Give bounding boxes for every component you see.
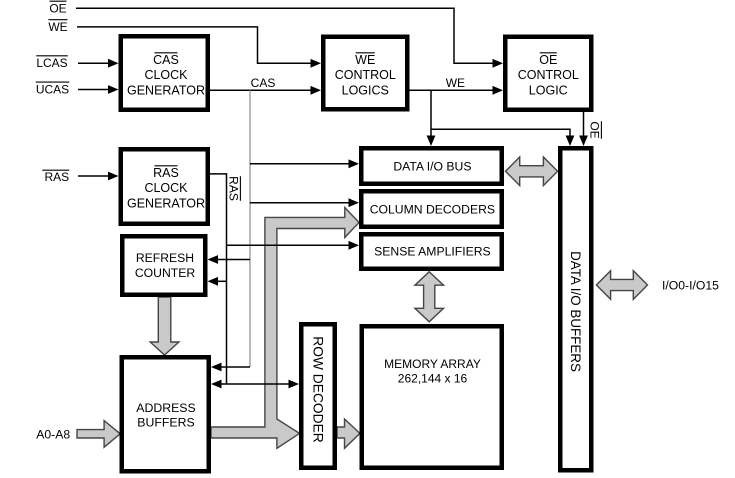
svg-text:RAS: RAS	[153, 166, 179, 180]
svg-text:RAS: RAS	[227, 176, 241, 201]
svg-text:MEMORY ARRAY: MEMORY ARRAY	[384, 357, 481, 371]
svg-text:LOGICS: LOGICS	[342, 83, 389, 97]
svg-text:CONTROL: CONTROL	[518, 68, 579, 82]
svg-text:A0-A8: A0-A8	[36, 428, 70, 442]
svg-text:UCAS: UCAS	[36, 83, 69, 97]
svg-text:ADDRESS: ADDRESS	[136, 401, 195, 415]
svg-text:COUNTER: COUNTER	[135, 266, 195, 280]
svg-text:GENERATOR: GENERATOR	[127, 83, 205, 97]
svg-text:CAS: CAS	[251, 76, 276, 90]
svg-text:ROW DECODER: ROW DECODER	[310, 336, 325, 443]
svg-text:CLOCK: CLOCK	[144, 181, 188, 195]
svg-text:COLUMN DECODERS: COLUMN DECODERS	[370, 202, 495, 216]
svg-text:SENSE AMPLIFIERS: SENSE AMPLIFIERS	[374, 244, 491, 258]
svg-text:BUFFERS: BUFFERS	[137, 416, 194, 430]
svg-text:CONTROL: CONTROL	[335, 68, 396, 82]
svg-text:DATA I/O BUS: DATA I/O BUS	[393, 160, 471, 174]
svg-text:WE: WE	[48, 20, 67, 34]
svg-text:I/O0-I/O15: I/O0-I/O15	[662, 278, 719, 292]
svg-text:LOGIC: LOGIC	[529, 83, 568, 97]
svg-text:OE: OE	[49, 2, 66, 16]
svg-text:DATA I/O BUFFERS: DATA I/O BUFFERS	[568, 251, 583, 372]
svg-text:WE: WE	[446, 76, 465, 90]
svg-text:GENERATOR: GENERATOR	[127, 196, 205, 210]
svg-text:OE: OE	[539, 53, 557, 67]
svg-text:262,144 x 16: 262,144 x 16	[398, 372, 468, 386]
svg-text:LCAS: LCAS	[36, 56, 67, 70]
svg-text:CLOCK: CLOCK	[144, 68, 188, 82]
svg-text:CAS: CAS	[153, 53, 179, 67]
svg-text:OE: OE	[588, 121, 602, 138]
svg-text:WE: WE	[355, 53, 375, 67]
svg-text:RAS: RAS	[44, 170, 69, 184]
svg-text:REFRESH: REFRESH	[136, 251, 194, 265]
